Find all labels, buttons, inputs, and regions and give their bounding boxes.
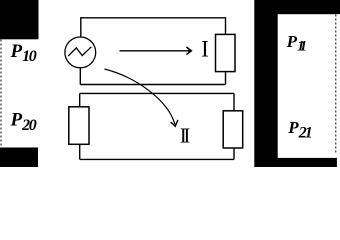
impedance Z2 (box, loop II left) <box>69 107 89 145</box>
black block right (P11/P21 outflow) <box>254 0 340 167</box>
wire: loop I top <box>81 17 226 19</box>
wire: loop II bottom <box>80 158 234 160</box>
wire: loop I bottom <box>80 84 225 86</box>
white edge sliver right of dashed boundary <box>337 14 340 167</box>
dashed boundary left <box>0 40 2 147</box>
impedance Z3 (box, loop II right) <box>223 111 243 148</box>
wire: loop II left lower <box>79 144 81 159</box>
wire: loop I left upper (to source) <box>80 17 82 37</box>
current arrow I (loop I) <box>120 50 191 52</box>
dashed boundary right <box>335 15 337 155</box>
curved arrow (coupling from source to loop II) <box>104 69 175 125</box>
source G1: zigzag waveform symbol <box>68 47 91 56</box>
black block top-left (P10 inflow) <box>0 0 39 39</box>
wire: loop I left lower (source to bottom) <box>79 68 81 85</box>
wire: loop I right upper <box>225 17 227 34</box>
impedance Z1 (box, loop I right) <box>216 34 236 71</box>
wire: loop II top <box>80 92 234 94</box>
wire: loop II right lower <box>233 148 235 159</box>
source G1: AC source circle <box>65 37 96 68</box>
wire: loop II right upper <box>233 93 235 110</box>
white panel right <box>278 14 340 158</box>
wire: loop I right lower <box>225 72 227 85</box>
svg-text:I: I <box>201 36 209 61</box>
wire: loop II left upper <box>79 93 81 106</box>
black block bottom-left (P20 inflow) <box>0 148 38 168</box>
